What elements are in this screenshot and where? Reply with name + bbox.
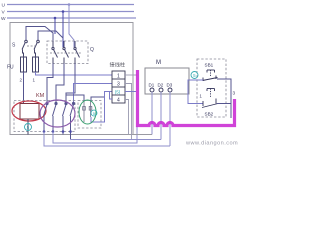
switch Q dashed box	[47, 41, 88, 64]
wire 2 fuse1 to coil	[23, 72, 25, 104]
contactor coil KM	[20, 104, 39, 120]
wire W drop	[54, 18, 56, 34]
switch S linkage dashed	[27, 45, 36, 47]
wire grey bottom bracket	[133, 134, 152, 136]
wire motor lead D2	[160, 92, 162, 140]
highlighted wire 5 path (magenta)	[138, 70, 235, 126]
wire V drop	[62, 12, 64, 48]
wire terminal1 right side	[125, 74, 137, 76]
motor terminal D3	[168, 88, 172, 92]
svg-text:D2: D2	[158, 83, 164, 88]
svg-text:D3: D3	[167, 83, 173, 88]
svg-text:3: 3	[233, 91, 236, 96]
circled wire number 5 (teal, FR)	[91, 110, 97, 116]
svg-text:KM: KM	[36, 93, 45, 99]
node on V line	[62, 10, 65, 13]
highlight ellipse purple (KM contacts)	[40, 100, 75, 127]
wire SB1-SB2 left jumper	[188, 80, 203, 104]
wire U drop	[69, 5, 74, 48]
wire 3 from terminal 3 to KM aux contact	[74, 84, 113, 104]
wire to FR element2	[91, 97, 105, 101]
wire bottom run to motor D2	[53, 126, 137, 143]
svg-text:FU: FU	[7, 65, 14, 71]
contactor KM main contact 2	[53, 102, 58, 131]
switch Q pole1	[52, 41, 58, 64]
wire bottom run to motor D3	[44, 132, 170, 147]
node on W line	[54, 17, 57, 20]
svg-text:4: 4	[117, 98, 120, 104]
wire S pole1 riser	[26, 27, 53, 48]
highlight ellipse red (coil)	[12, 101, 46, 121]
wire SB2 right lead	[217, 103, 231, 105]
svg-text:U: U	[2, 3, 6, 9]
wire S pole2 riser	[38, 31, 63, 40]
phase line U	[7, 4, 134, 6]
push button SB2 (NO)	[202, 89, 218, 108]
svg-text:W: W	[1, 16, 6, 22]
wire FR2 bottom to terminal 5	[91, 92, 112, 123]
contactor KM dashed box	[14, 101, 75, 132]
wire 1 fuse2 to terminal 1	[36, 72, 113, 75]
phase line V	[7, 11, 134, 13]
thermal element FR1	[83, 101, 86, 122]
contactor KM main contact 1	[44, 102, 49, 131]
motor terminal D1	[150, 88, 154, 92]
wire Q2 to KM2	[56, 64, 64, 104]
wire terminal3 right side	[125, 84, 132, 140]
svg-text:3: 3	[117, 82, 120, 88]
wire motor lead D1	[151, 92, 153, 135]
svg-text:(5): (5)	[115, 89, 121, 94]
motor terminal D2	[159, 88, 163, 92]
junction dot aux wire	[69, 130, 72, 133]
wire terminal4 right side	[125, 100, 129, 135]
switch Q pole2	[63, 41, 69, 64]
thermal relay FR dashed box	[78, 101, 101, 129]
contactor KM aux contact	[70, 102, 75, 139]
wire 3 from buttons	[217, 79, 231, 118]
junction dot contact1 wire	[43, 130, 46, 133]
circled wire number 5 (teal, buttons)	[191, 72, 198, 79]
wire branch to terminal 4	[110, 92, 113, 100]
panel enclosure box	[10, 23, 133, 135]
svg-text:www.diangon.com: www.diangon.com	[185, 141, 238, 147]
junction dot contact3 wire	[62, 130, 65, 133]
wire coil bottom	[27, 119, 29, 135]
wire bottom run to motor D1	[71, 139, 162, 141]
svg-text:1: 1	[117, 74, 120, 80]
svg-text:SB1: SB1	[205, 63, 214, 68]
switch S pole1	[22, 40, 27, 57]
fuse FU2	[33, 57, 39, 72]
svg-text:M: M	[156, 60, 161, 66]
wire terminal5 right side stub	[125, 91, 136, 93]
svg-text:接线柱: 接线柱	[110, 61, 126, 69]
thermal element FR2	[89, 101, 92, 117]
wire Q3 to KM3	[66, 64, 75, 104]
svg-text:Q: Q	[90, 47, 94, 53]
button station dashed box	[197, 59, 226, 117]
svg-text:SB2: SB2	[205, 112, 214, 117]
switch S pole2	[34, 40, 39, 57]
switch Q pole3	[74, 41, 80, 64]
junction dot contact2 wire	[52, 130, 55, 133]
wire motor lead D3	[169, 92, 171, 146]
contactor KM main contact 3	[63, 102, 68, 134]
wire to FR element1	[66, 95, 84, 101]
switch Q linkage dashed	[50, 52, 81, 54]
circled wire number 5 (teal, at coil bottom)	[25, 124, 32, 131]
fuse FU1	[21, 57, 27, 72]
motor box	[145, 68, 189, 94]
svg-text:D1: D1	[149, 83, 155, 88]
node on U line	[68, 3, 71, 6]
phase line W	[7, 17, 136, 19]
push button SB1 (NC)	[203, 70, 218, 81]
terminal strip box	[112, 71, 125, 103]
highlight ellipse green (FR)	[79, 100, 96, 124]
wire Q1 to KM1	[47, 64, 53, 104]
